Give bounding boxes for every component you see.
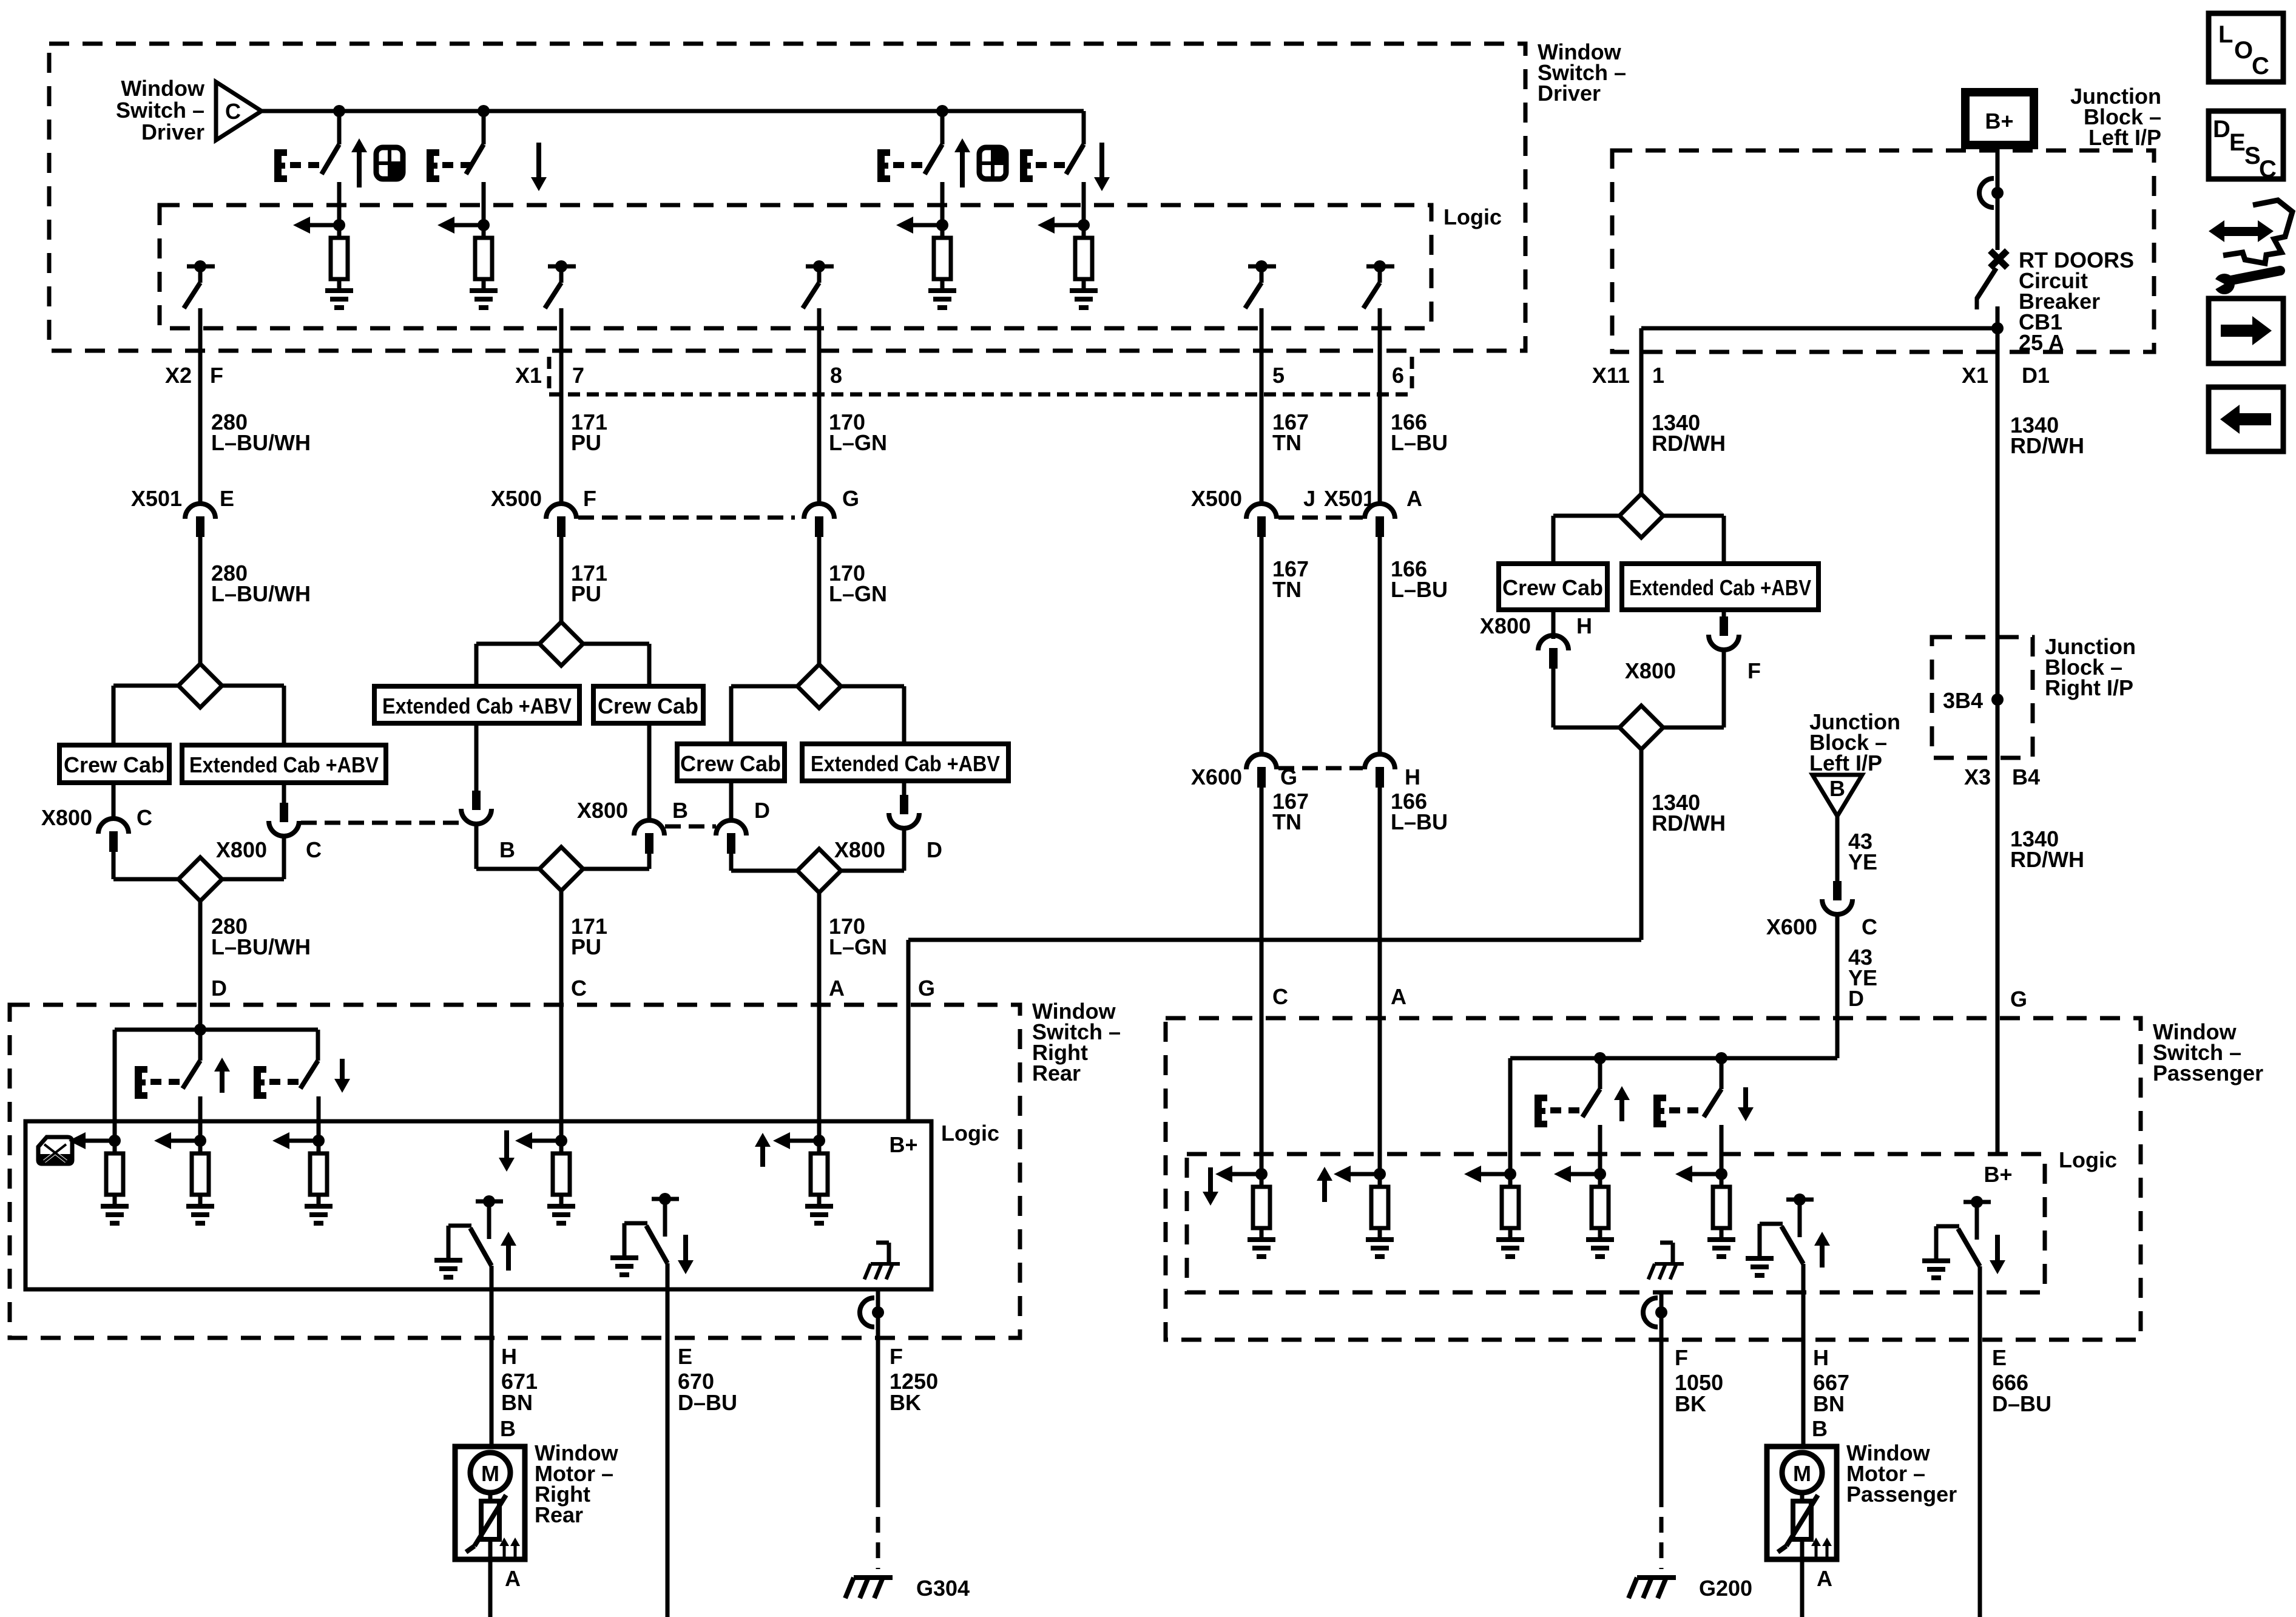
wire: branch to Extended Cab option (222, 684, 284, 688)
left arrow + resistor + ground column at x=1786 (1053, 223, 1084, 228)
internal chassis ground reference (887, 1243, 891, 1264)
wire from X800-B cup to splice (474, 825, 479, 869)
svg-text:PU: PU (571, 581, 601, 606)
svg-text:A: A (1391, 984, 1406, 1009)
up arrow (logic) (1317, 1167, 1332, 1181)
svg-text:F: F (1747, 658, 1761, 683)
svg-text:Extended Cab +ABV: Extended Cab +ABV (811, 751, 1000, 776)
svg-text:M: M (1793, 1461, 1811, 1486)
svg-text:X800: X800 (41, 805, 92, 830)
wire motor A to loop (488, 1559, 493, 1617)
left arrow + resistor + ground column (feed) (1480, 1172, 1510, 1176)
wire 280 L-BU/WH below X501 (198, 536, 203, 664)
wire pin E output (1978, 1266, 1982, 1340)
svg-text:H: H (1405, 765, 1420, 789)
svg-text:H: H (1813, 1345, 1829, 1370)
icon box DESC (2209, 111, 2283, 179)
wire: branch to Crew Cab option (113, 684, 178, 688)
splice diamond (171 circuit upper) (539, 622, 583, 666)
svg-text:Crew Cab: Crew Cab (1502, 575, 1603, 600)
motor thermal protector (PTC) (1800, 1493, 1805, 1501)
svg-text:L–BU/WH: L–BU/WH (211, 430, 311, 455)
wire: branch to Crew Cab option (731, 684, 797, 689)
svg-text:E: E (2229, 129, 2246, 156)
power feed B+ box (1965, 92, 2034, 145)
ground G200 (1629, 1578, 1676, 1598)
connector triangle B (junction block output) (1812, 775, 1862, 816)
svg-text:Crew Cab: Crew Cab (598, 694, 698, 718)
svg-text:Right I/P: Right I/P (2045, 675, 2133, 700)
connector X500 pin J (1246, 504, 1277, 519)
svg-text:PU: PU (571, 934, 601, 959)
svg-text:C: C (571, 976, 587, 1001)
svg-text:X3: X3 (1964, 765, 1991, 789)
svg-text:B: B (1829, 776, 1845, 801)
wire 670 D-BU to motor loop (666, 1338, 670, 1617)
svg-text:F: F (1675, 1345, 1688, 1370)
svg-text:X501: X501 (1324, 486, 1375, 511)
svg-text:F: F (890, 1344, 903, 1369)
logic output switch for pin F (187, 265, 215, 269)
svg-text:25 A: 25 A (2019, 330, 2064, 355)
junction nodes on 43 YE bus (1594, 1052, 1606, 1064)
thermal arrows (1811, 1538, 1821, 1546)
switch SW-up blade (940, 111, 945, 144)
wire X800-H to splice (1551, 668, 1556, 727)
wire 1250 BK to ground (876, 1338, 880, 1491)
option box Extended Cab +ABV (802, 744, 1008, 781)
svg-text:X1: X1 (515, 363, 542, 388)
connector X800 pin C (extended) (280, 803, 288, 822)
wire: 43 YE feed down-leg to logic (1508, 1058, 1513, 1174)
wire 667 BN to motor B (1801, 1340, 1806, 1447)
wire below Crew Cab (729, 781, 734, 820)
wire: 43 YE across to passenger logic (1510, 1056, 1837, 1061)
left arrow + resistor + ground column at x=797 (453, 223, 484, 228)
up arrow at drive switch (1814, 1232, 1830, 1246)
splice diamond (280 circuit upper) (178, 664, 222, 707)
option box Crew Cab (593, 686, 703, 723)
junction node on feed bus (333, 105, 345, 117)
switch SW-down blade (482, 111, 486, 144)
svg-text:Extended Cab +ABV: Extended Cab +ABV (189, 752, 379, 777)
wire: switch output into logic at x=559 (337, 189, 342, 225)
svg-text:Passenger: Passenger (2153, 1061, 2263, 1085)
wire from CB1 to X1-D1 node (1996, 306, 2000, 351)
wire 170 L-GN from pin 8 (817, 351, 822, 503)
svg-text:Passenger: Passenger (1846, 1482, 1957, 1507)
connector X1 dotted boundary line (549, 393, 1414, 397)
wire pin H output (490, 1266, 494, 1338)
wire 1340 RD/WH down to window-switch feed (1639, 749, 1644, 940)
motor M circle (470, 1453, 510, 1493)
wire: logic output pin 5 (1260, 308, 1264, 351)
svg-text:X501: X501 (131, 486, 182, 511)
svg-text:L–BU: L–BU (1391, 809, 1448, 834)
connector X501 pin A (1365, 504, 1395, 519)
svg-text:Switch –: Switch – (116, 98, 204, 123)
up arrow (214, 1058, 230, 1072)
svg-text:C: C (1862, 914, 1877, 939)
svg-text:X800: X800 (216, 837, 267, 862)
wire 280 L-BU/WH from pin F (198, 351, 203, 503)
option box Extended Cab +ABV (182, 745, 386, 783)
wire from X800-D to splice (729, 851, 734, 871)
svg-text:3B4: 3B4 (1943, 688, 1983, 713)
wire 170 L-GN to pin A (817, 893, 822, 1005)
svg-text:RD/WH: RD/WH (1652, 811, 1726, 836)
wire pin A into logic (1378, 1018, 1382, 1174)
inner Logic box of driver switch (dashed) (160, 205, 1431, 328)
connector X800 pin D (extended) (900, 795, 908, 814)
E node (express) for up switch (877, 149, 885, 182)
connector X600 pin G (1246, 754, 1277, 769)
wire: feed to up/down paddles (115, 1028, 318, 1032)
connector X800 pin C (crew) (98, 819, 129, 834)
wire: branch to X11-1 (1641, 326, 1997, 331)
svg-text:BK: BK (890, 1390, 921, 1415)
right-rear down switch blade with E node (300, 1061, 318, 1089)
connector X800 pin H (1538, 635, 1568, 650)
left arrow + resistor + ground column (pin C) (1231, 1172, 1261, 1176)
E node (express) for up switch (274, 149, 282, 182)
svg-text:Driver: Driver (1538, 81, 1601, 106)
svg-text:F: F (583, 486, 596, 511)
svg-text:Rear: Rear (535, 1502, 583, 1527)
svg-text:Window: Window (121, 76, 205, 101)
wire: B+ feed across to right-rear switch (908, 938, 1641, 942)
svg-text:Driver: Driver (141, 120, 204, 144)
wire B+ into junction block (1996, 145, 2000, 250)
down arrow (logic) (1203, 1192, 1218, 1206)
svg-text:G: G (918, 976, 935, 1001)
logic output switch for pin 6 (1366, 265, 1394, 269)
connector X600 pin C (1833, 881, 1842, 900)
splice diamond (1340 upper) (1619, 494, 1663, 538)
svg-text:8: 8 (830, 363, 842, 388)
wire pin D into switch (198, 1005, 203, 1061)
component box: Window Switch - Driver (dashed outline) (49, 44, 1525, 351)
wire: logic output pin F (198, 308, 203, 351)
dashed connector jumper X500 J - X501 A (1278, 516, 1363, 520)
wire 1050 BK dashed segment (1660, 1491, 1664, 1569)
down arrow (1094, 177, 1110, 191)
svg-text:M: M (481, 1461, 499, 1486)
wire 171 PU to pin C (559, 891, 564, 1005)
connector X600 pin H (1365, 754, 1395, 769)
up arrow (351, 138, 367, 152)
svg-text:G304: G304 (916, 1576, 970, 1601)
wire from X800-C to splice (112, 849, 116, 879)
wire 43 YE from triangle B (1835, 816, 1840, 881)
motor M circle (1782, 1453, 1822, 1493)
dashed connector jumper X600 G-H (1278, 766, 1363, 771)
svg-text:D: D (754, 798, 770, 823)
wire: logic output pin 7 (559, 308, 564, 351)
svg-text:D: D (2213, 116, 2230, 143)
connector X1 dashed tick (547, 357, 552, 394)
svg-text:7: 7 (572, 363, 584, 388)
wire: logic output pin 6 (1378, 308, 1382, 351)
svg-text:B: B (1812, 1416, 1828, 1441)
svg-text:C: C (306, 837, 322, 862)
logic box of passenger switch (dashed) (1187, 1154, 2045, 1292)
left arrow + resistor + ground column at x=559 (309, 223, 339, 228)
wire motor A to loop (1800, 1559, 1805, 1617)
svg-text:BN: BN (1813, 1391, 1845, 1416)
svg-text:L–BU/WH: L–BU/WH (211, 581, 311, 606)
E node (express) for down switch (427, 149, 434, 182)
terminal clip on ground output (860, 1298, 874, 1327)
E node (express) for down switch (1020, 149, 1027, 182)
svg-text:RD/WH: RD/WH (2010, 433, 2084, 458)
svg-text:D1: D1 (2022, 363, 2050, 388)
junction node CB1 output (1991, 322, 2004, 334)
circuit breaker CB1 blade (1977, 268, 1996, 299)
drive switch - down (output E) (1963, 1200, 1991, 1204)
connector X800 pin B (crew) (634, 820, 664, 836)
left arrow + resistor + ground column at x=1553 (912, 223, 942, 228)
passenger up switch blade with E node (1598, 1058, 1602, 1089)
wire 1340 RD/WH from X1-D1 (1996, 351, 2000, 637)
svg-text:L–GN: L–GN (829, 430, 887, 455)
up arrow (1614, 1086, 1630, 1100)
wire 166 L&#8211;BU mid segment (1378, 536, 1382, 755)
switch SW-up blade (337, 111, 342, 144)
svg-text:X600: X600 (1191, 765, 1242, 789)
driver window up/down switch pair 2 with E nodes (1082, 111, 1086, 144)
svg-text:Logic: Logic (2059, 1147, 2117, 1172)
down arrow (531, 177, 547, 191)
wire pin H output (1801, 1264, 1806, 1340)
passenger down switch blade with E node (1720, 1058, 1724, 1089)
switch SW-down blade (1082, 111, 1086, 144)
svg-text:6: 6 (1392, 363, 1404, 388)
wire pin C into logic (559, 1005, 564, 1141)
icon box back arrow (2209, 387, 2283, 451)
wire pin A into logic (817, 1005, 822, 1141)
wire 666 D-BU to motor loop (1978, 1340, 1982, 1617)
svg-text:X800: X800 (1480, 613, 1531, 638)
connector X500 pin G (804, 504, 834, 519)
splice diamond (170 circuit lower) (797, 849, 841, 893)
svg-text:C: C (2252, 53, 2269, 79)
wire below Extended Cab (1722, 610, 1726, 616)
option box Crew Cab (1499, 564, 1607, 610)
svg-text:C: C (1272, 984, 1288, 1009)
svg-text:TN: TN (1272, 430, 1302, 455)
svg-text:X1: X1 (1962, 363, 1988, 388)
ground G304 (845, 1578, 893, 1598)
svg-text:A: A (1817, 1566, 1832, 1591)
svg-text:L–BU: L–BU (1391, 430, 1448, 455)
option box Crew Cab (677, 744, 785, 781)
wire 167 TN to passenger switch (1260, 787, 1264, 1018)
wire below Extended Cab (282, 783, 286, 803)
svg-text:Extended Cab +ABV: Extended Cab +ABV (382, 694, 572, 718)
wire: branch to Extended Cab option (841, 684, 904, 689)
wire pin G / B+ into logic (1996, 1018, 2000, 1154)
logic box of right-rear switch (solid) (25, 1121, 931, 1289)
connector X500 pin F (546, 504, 576, 519)
icon box LOC (2209, 13, 2283, 82)
wire 1340 RD/WH to passenger pin G (1996, 758, 2000, 1018)
left arrow + resistor + ground column (up paddle) (84, 1139, 115, 1143)
svg-text:D: D (211, 976, 227, 1001)
svg-text:Rear: Rear (1032, 1061, 1081, 1085)
svg-text:Left I/P: Left I/P (2088, 125, 2161, 150)
component box: Junction Block - Right I/P (dashed) (1932, 637, 2033, 758)
icon box forward arrow (2209, 299, 2283, 363)
thermal arrows (499, 1538, 509, 1546)
connector X800 pin F (1720, 616, 1728, 636)
connector X800 pin D (crew) (716, 820, 746, 836)
down arrow at drive switch (678, 1260, 694, 1274)
svg-text:L: L (2218, 21, 2233, 48)
svg-text:E: E (220, 486, 234, 511)
wire from X800-D cup to splice (902, 829, 907, 871)
drive switch - up (output H) (1786, 1198, 1814, 1202)
svg-text:B4: B4 (2012, 765, 2040, 789)
wire 671 BN to motor B (490, 1338, 494, 1447)
up arrow at drive switch (501, 1232, 516, 1246)
svg-text:L–GN: L–GN (829, 581, 887, 606)
svg-text:Logic: Logic (941, 1121, 999, 1146)
wire: branch to Extended Cab option (1663, 514, 1724, 518)
wire: branch to Crew Cab option (1553, 514, 1619, 518)
splice diamond (171 circuit lower) (539, 847, 583, 891)
component: Window Motor - Right Rear (455, 1447, 525, 1559)
down arrow (logic) (499, 1158, 515, 1172)
svg-text:A: A (505, 1566, 521, 1591)
dashed connector jumper X800 B-D (665, 825, 716, 829)
wire 167 TN from driver switch (1260, 351, 1264, 503)
component box: Window Switch - Passenger (dashed) (1166, 1018, 2141, 1340)
svg-text:D–BU: D–BU (678, 1390, 737, 1415)
svg-text:Crew Cab: Crew Cab (680, 751, 781, 776)
svg-text:S: S (2244, 143, 2261, 169)
splice diamond (1340 lower) (1619, 706, 1663, 749)
wire B+ (pin G) into logic (907, 1018, 911, 1121)
svg-text:B: B (672, 798, 688, 823)
svg-text:X600: X600 (1766, 914, 1817, 939)
left arrow + resistor + ground column (down paddle) (288, 1139, 319, 1143)
wire: branch to Crew Cab option (583, 642, 649, 646)
component: Window Motor - Passenger (1767, 1447, 1837, 1559)
wire 280 L-BU/WH to pin D (198, 901, 203, 1005)
svg-text:C: C (225, 99, 241, 124)
internal chassis ground reference (1671, 1243, 1675, 1264)
icon shortcut (arrow + wrench) (2204, 200, 2292, 294)
wire: main feed bus from triangle C (262, 109, 1084, 113)
wire: branch to Extended Cab option (476, 642, 539, 646)
wire from X800-C cup to splice (282, 837, 286, 879)
up arrow (954, 138, 970, 152)
svg-text:C: C (2259, 156, 2277, 183)
svg-text:PU: PU (571, 430, 601, 455)
svg-text:B+: B+ (1984, 1162, 2012, 1187)
wire below Crew Cab (112, 783, 116, 819)
svg-text:RD/WH: RD/WH (1652, 431, 1726, 456)
svg-text:G: G (2010, 987, 2027, 1011)
svg-text:BK: BK (1675, 1391, 1706, 1416)
wire below Extended Cab (474, 723, 479, 791)
right-rear up switch blade with E node (183, 1061, 200, 1089)
svg-text:1: 1 (1652, 363, 1664, 388)
circuit breaker CB1 sensor X (1990, 251, 2007, 268)
down arrow at drive switch (1990, 1260, 2005, 1274)
component box: Junction Block - Left I/P (dashed) (1612, 150, 2154, 352)
connector triangle C (Window Switch - Driver feed) (216, 82, 262, 140)
wire: logic output pin 8 (817, 308, 822, 351)
wire: switch output into logic at x=797 (482, 189, 486, 225)
svg-text:A: A (829, 976, 845, 1001)
svg-text:D–BU: D–BU (1992, 1391, 2051, 1416)
svg-text:B+: B+ (889, 1132, 917, 1157)
net 3B4 junction node (1996, 637, 2000, 758)
wire 171 PU below X500 (559, 536, 564, 622)
junction node on pin D feed (194, 1024, 206, 1036)
svg-text:5: 5 (1272, 363, 1285, 388)
wire 170 L-GN below X500 (817, 536, 822, 664)
svg-text:B: B (500, 1416, 516, 1441)
wire below Extended Cab (902, 781, 907, 795)
svg-text:E: E (1992, 1345, 2007, 1370)
svg-text:L–BU: L–BU (1391, 577, 1448, 602)
wire: switch output into logic at x=1786 (1082, 189, 1086, 225)
svg-text:Extended Cab +ABV: Extended Cab +ABV (1629, 575, 1811, 600)
svg-text:Logic: Logic (1443, 204, 1502, 229)
dashed connector jumper X800 C-B (301, 821, 460, 825)
wire pin F (ground output) (1660, 1292, 1664, 1340)
svg-text:YE: YE (1848, 849, 1877, 874)
wire pin F (ground output) (876, 1289, 880, 1338)
left arrow + resistor + ground column (pin A) (789, 1139, 819, 1143)
svg-text:X800: X800 (1625, 658, 1676, 683)
svg-text:B+: B+ (1985, 109, 2013, 133)
svg-text:J: J (1303, 486, 1315, 511)
svg-text:F: F (210, 363, 223, 388)
wire 1250 BK dashed segment (876, 1491, 880, 1569)
svg-text:D: D (927, 837, 942, 862)
svg-text:D: D (1848, 986, 1864, 1011)
svg-text:TN: TN (1272, 577, 1302, 602)
wire 167 TN mid segment (1260, 536, 1264, 755)
option box Crew Cab (59, 745, 169, 783)
svg-text:X500: X500 (1191, 486, 1242, 511)
wire 1050 BK to ground (1660, 1340, 1664, 1491)
down arrow (1738, 1107, 1754, 1121)
svg-text:X11: X11 (1592, 363, 1630, 388)
svg-text:B: B (499, 837, 515, 862)
wire 166 L&#8211;BU from driver switch (1378, 351, 1382, 503)
wire pin E output (666, 1263, 670, 1338)
window icon (right rear) (38, 1137, 72, 1164)
connector X800 pin B (extended) (472, 791, 481, 810)
wire below Crew Cab (1551, 610, 1556, 639)
svg-text:TN: TN (1272, 809, 1302, 834)
left arrow + resistor + ground column (pin A) (1349, 1172, 1380, 1176)
svg-text:X800: X800 (577, 798, 628, 823)
splice diamond (280 circuit lower) (178, 857, 222, 901)
window quad icon (376, 147, 403, 179)
svg-text:X800: X800 (834, 837, 885, 862)
window quad icon (979, 147, 1006, 179)
left arrow + resistor + ground column (down paddle) (1691, 1172, 1721, 1176)
motor thermal protector (PTC) (488, 1493, 493, 1501)
wire 166 L&#8211;BU to passenger switch (1378, 787, 1382, 1018)
connector X501 pin E (185, 504, 215, 519)
